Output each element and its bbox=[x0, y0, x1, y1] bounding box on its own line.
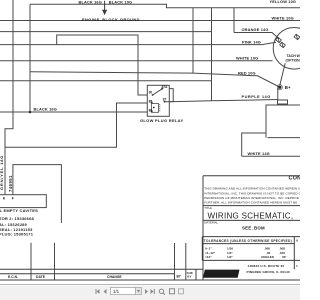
starter motor box bbox=[242, 105, 300, 156]
svg-text:WHITE 14G: WHITE 14G bbox=[248, 151, 270, 156]
svg-text:PINGREE GROVE, IL 60140: PINGREE GROVE, IL 60140 bbox=[247, 270, 290, 274]
wire stub bottom x174 bbox=[174, 243, 176, 280]
wire black 16G bus bbox=[0, 111, 147, 113]
svg-text:DATE: DATE bbox=[36, 275, 46, 279]
svg-text:WIRING SCHEMATIC,: WIRING SCHEMATIC, bbox=[208, 212, 294, 221]
svg-text:14N843 U.S. ROUTE 30: 14N843 U.S. ROUTE 30 bbox=[248, 264, 285, 268]
svg-text:BLACK 10G: BLACK 10G bbox=[109, 0, 132, 5]
bottom revision table bbox=[0, 269, 300, 280]
wire ground bus top (BLACK 16G / BLACK 10G) bbox=[30, 4, 300, 8]
svg-text:GLOW PLUG RELAY: GLOW PLUG RELAY bbox=[140, 118, 183, 123]
alternator terminal studs bbox=[276, 34, 300, 48]
relay U1 glow plug relay bbox=[147, 85, 169, 116]
svg-text:PINK 14G: PINK 14G bbox=[242, 40, 261, 45]
svg-text:FURTHER, ALL INFORMATION CONTA: FURTHER, ALL INFORMATION CONTAINED HEREI… bbox=[204, 201, 297, 205]
svg-text:ENGINE–BLOCK GROUND: ENGINE–BLOCK GROUND bbox=[82, 17, 140, 22]
wire white 10G lower bbox=[0, 60, 273, 62]
svg-text:S: S bbox=[296, 264, 298, 268]
svg-text:PERMISSION OF MINUTEMAN INTERN: PERMISSION OF MINUTEMAN INTERNATIONAL, I… bbox=[204, 196, 299, 200]
nav first/prev buttons bbox=[96, 289, 107, 294]
junction dot node black16G bbox=[29, 111, 32, 114]
wire vertical x234 bbox=[233, 8, 235, 33]
wire 87A stub bbox=[169, 89, 173, 102]
wire stub bottom x54 bbox=[54, 243, 56, 280]
wire B+ drop to terminal box bbox=[277, 88, 279, 100]
svg-text:1/2”: 1/2” bbox=[227, 255, 233, 259]
wire vertical x194 bbox=[192, 8, 194, 73]
svg-text:BLACK 16G: BLACK 16G bbox=[34, 107, 57, 112]
svg-text:SEE_BOM: SEE_BOM bbox=[242, 225, 265, 230]
wire labels top bbox=[34, 0, 297, 156]
svg-text:30: 30 bbox=[149, 90, 153, 94]
K/F connector box bbox=[0, 195, 46, 208]
svg-text:TOLERANCES (UNLESS OTHERWISE S: TOLERANCES (UNLESS OTHERWISE SPECIFIED) bbox=[204, 239, 292, 243]
svg-text:THIS DRAWING AND ALL INFORMATI: THIS DRAWING AND ALL INFORMATION CONTAIN… bbox=[204, 187, 300, 191]
wire y80 bbox=[0, 80, 212, 82]
title block frame bbox=[202, 176, 300, 280]
svg-text:PURPLE 14G: PURPLE 14G bbox=[242, 94, 271, 99]
svg-text:E.C.N.: E.C.N. bbox=[8, 275, 18, 279]
relay pin labels bbox=[149, 85, 169, 113]
svg-text:YELLOW 10G: YELLOW 10G bbox=[270, 0, 297, 4]
svg-text:.005: .005 bbox=[279, 246, 285, 250]
alternator G1 circle bbox=[273, 28, 315, 70]
nav next/last buttons bbox=[145, 289, 155, 294]
wire y31 to vertical 211 bbox=[0, 31, 212, 33]
svg-text:ANGLES: ANGLES bbox=[261, 255, 274, 259]
svg-text:CHANGE: CHANGE bbox=[107, 275, 122, 279]
svg-text:MATERIAL: MATERIAL bbox=[204, 221, 218, 225]
svg-text:WHITE 10G: WHITE 10G bbox=[236, 56, 258, 61]
svg-text:INTERNATIONAL, INC. THIS DRAWI: INTERNATIONAL, INC. THIS DRAWING IS NOT … bbox=[204, 191, 300, 195]
wire stub bottom x31 bbox=[30, 243, 32, 280]
ground arrow to engine block bbox=[103, 1, 107, 14]
svg-text:.010: .010 bbox=[279, 251, 285, 255]
svg-text:B+: B+ bbox=[285, 85, 291, 90]
svg-text:TITLE: TITLE bbox=[204, 206, 212, 210]
svg-text:ORANGE 14G: ORANGE 14G bbox=[242, 27, 269, 32]
svg-text:>1–12”: >1–12” bbox=[205, 251, 216, 255]
wire vertical x30 bbox=[29, 4, 31, 112]
svg-text:87: 87 bbox=[163, 98, 167, 102]
svg-text:PLUG: 15305171: PLUG: 15305171 bbox=[0, 231, 34, 236]
svg-text:87A: 87A bbox=[162, 85, 169, 89]
wire red 10G bbox=[30, 72, 280, 87]
svg-text:1/1: 1/1 bbox=[113, 289, 120, 294]
svg-text:F: F bbox=[12, 196, 14, 200]
svg-text:86: 86 bbox=[149, 109, 153, 113]
svg-text:1/16: 1/16 bbox=[227, 246, 233, 250]
svg-text:746951: 746951 bbox=[8, 175, 13, 192]
node B+ terminal bbox=[278, 86, 281, 89]
svg-text:0–1”: 0–1” bbox=[205, 246, 212, 250]
terminal block small box on starter bbox=[278, 100, 288, 104]
wire orange 14G bbox=[234, 33, 279, 39]
wire alternator to B+ bbox=[280, 63, 285, 85]
wire stub bottom x185 bbox=[185, 243, 187, 280]
svg-text:RED 10G: RED 10G bbox=[238, 71, 256, 76]
svg-text:(OPTIONAL): (OPTIONAL) bbox=[286, 59, 301, 63]
wire branch to relay 85 bbox=[5, 103, 147, 147]
svg-text:.000: .000 bbox=[264, 246, 270, 250]
wire purple 14G bbox=[169, 100, 277, 102]
svg-text:CONFIDENTIAL: CONFIDENTIAL bbox=[289, 176, 301, 182]
svg-text:1/4”: 1/4” bbox=[227, 251, 233, 255]
svg-text:LL EMPTY CAVITES: LL EMPTY CAVITES bbox=[0, 208, 38, 213]
svg-text:TACH WIRE: TACH WIRE bbox=[287, 54, 301, 58]
parts list text block bbox=[0, 208, 38, 237]
svg-text:30’: 30’ bbox=[282, 255, 286, 259]
svg-text:WHITE 10G: WHITE 10G bbox=[272, 15, 294, 20]
wire pink 14G bbox=[0, 42, 276, 44]
svg-text:.00: .00 bbox=[266, 251, 271, 255]
legal fine print bbox=[204, 187, 301, 205]
wire F terminal leader bbox=[13, 165, 62, 223]
svg-text:85: 85 bbox=[149, 99, 153, 103]
wire left drop to K terminal bbox=[5, 0, 13, 195]
address block bbox=[247, 264, 290, 274]
wire vertical x211 bbox=[211, 8, 213, 101]
svg-text:<12”: <12” bbox=[205, 255, 212, 259]
svg-text:BLACK 16G: BLACK 16G bbox=[79, 0, 102, 5]
svg-text:TOR 2: 15336668: TOR 2: 15336668 bbox=[0, 216, 35, 221]
minuteman logo bbox=[203, 270, 240, 278]
wire relay 30 feed bbox=[57, 35, 148, 95]
pdf viewer toolbar bbox=[0, 285, 300, 300]
zoom/rotate icons bbox=[159, 289, 174, 295]
page number input bbox=[111, 288, 136, 295]
svg-text:BY: BY bbox=[187, 274, 191, 278]
svg-text:Minuteman: Minuteman bbox=[206, 272, 235, 278]
svg-text:GRN/YEL 18G: GRN/YEL 18G bbox=[0, 155, 4, 190]
wire white 10G upper bbox=[0, 20, 300, 22]
wire white 14G bbox=[242, 155, 300, 157]
